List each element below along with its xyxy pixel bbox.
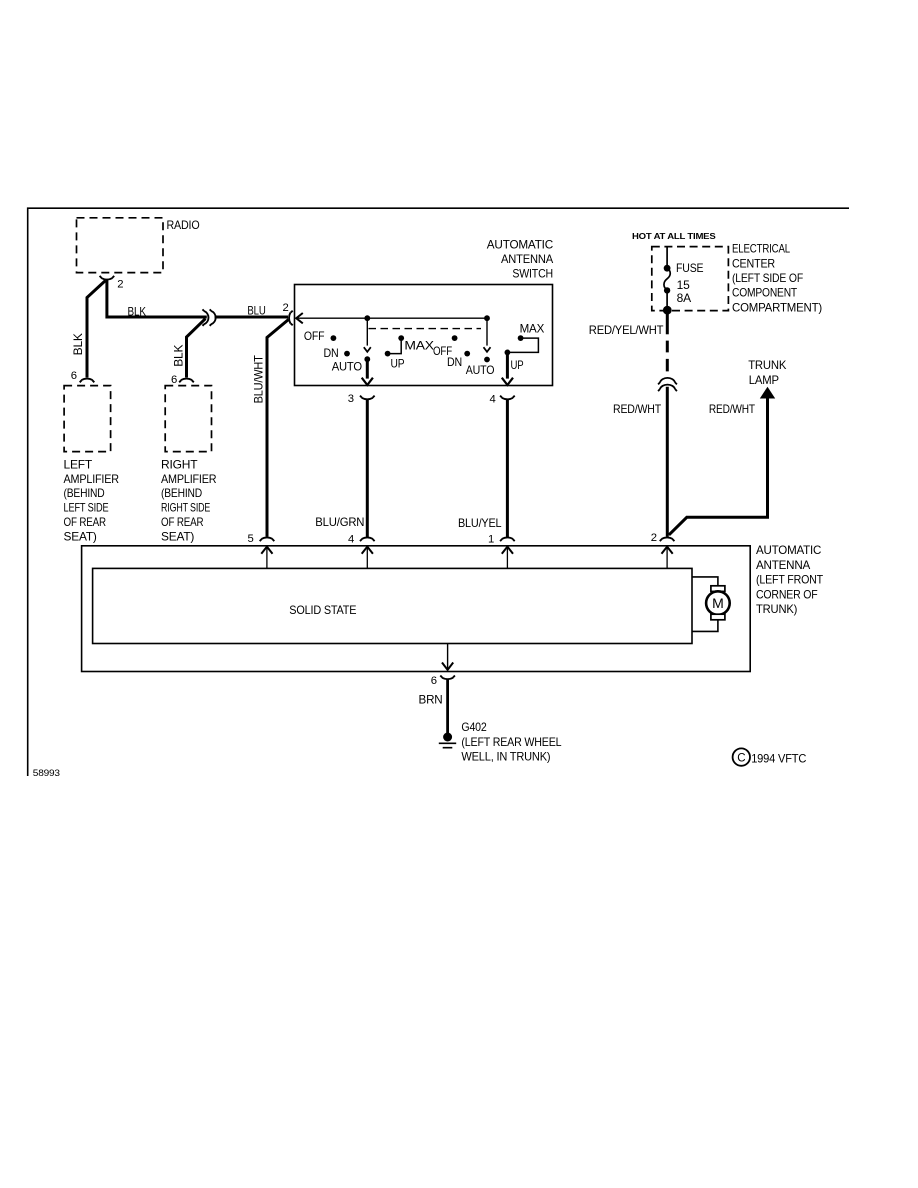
- pole 1 contact MAX: [398, 335, 434, 352]
- inline connector C100 (double arc): [658, 378, 677, 391]
- svg-text:TRUNK: TRUNK: [748, 358, 786, 372]
- svg-text:(BEHIND: (BEHIND: [64, 486, 105, 500]
- automatic antenna switch box S1: [295, 237, 554, 385]
- svg-text:AUTO: AUTO: [466, 363, 495, 377]
- svg-text:CORNER OF: CORNER OF: [756, 587, 818, 601]
- svg-text:AUTOMATIC: AUTOMATIC: [756, 543, 822, 557]
- label G402: [461, 720, 561, 764]
- diagram frame: [28, 208, 849, 776]
- trunk lamp label: [748, 358, 786, 387]
- ground G402: [439, 733, 456, 748]
- pole 2 contact AUTO: [466, 357, 495, 377]
- svg-text:SEAT): SEAT): [64, 529, 97, 543]
- switch pin 2 connector: [283, 302, 293, 325]
- radio pin 2 connector: [100, 276, 124, 291]
- pin 3 exit arrow: [362, 378, 373, 385]
- svg-text:COMPONENT: COMPONENT: [732, 286, 798, 300]
- pole 1 contact AUTO: [332, 356, 370, 373]
- svg-text:6: 6: [171, 374, 177, 386]
- pin 6 right amplifier: [171, 374, 194, 386]
- pin 2 entry arrow: [662, 547, 673, 569]
- svg-text:(LEFT SIDE OF: (LEFT SIDE OF: [732, 271, 803, 285]
- antenna pin 6 connector: [431, 675, 455, 687]
- pole 1 contact OFF: [304, 329, 336, 343]
- wire RED/YEL/WHT below fuse: [666, 310, 669, 334]
- switch pole 1 wiper: [364, 318, 371, 352]
- svg-text:WELL, IN TRUNK): WELL, IN TRUNK): [461, 750, 550, 764]
- svg-text:UP: UP: [391, 356, 405, 370]
- svg-text:LAMP: LAMP: [749, 373, 779, 387]
- svg-text:DN: DN: [324, 346, 339, 360]
- trunk lamp feed arrow: [760, 387, 775, 399]
- pole 2 contact MAX: [518, 321, 545, 341]
- wire pole1 AUTO contact to pin 3: [366, 359, 369, 378]
- wire BLK inline connector to right amplifier: [187, 319, 206, 378]
- wire pole2 UP contact to pin 4: [506, 352, 509, 378]
- svg-text:BLK: BLK: [171, 344, 185, 366]
- svg-text:RIGHT: RIGHT: [161, 457, 198, 471]
- wire BRN pin 6 to ground: [446, 679, 449, 733]
- fuse F1 15 8A: [664, 261, 704, 310]
- svg-text:AMPLIFIER: AMPLIFIER: [161, 472, 217, 486]
- antenna pin 4 connector: [348, 533, 375, 545]
- wire solid state to pin 6: [447, 644, 449, 669]
- switch pole 2 wiper: [484, 318, 491, 352]
- svg-text:TRUNK): TRUNK): [756, 602, 797, 616]
- svg-text:(LEFT REAR WHEEL: (LEFT REAR WHEEL: [461, 735, 561, 749]
- pole 1 UP-MAX link wire: [388, 338, 402, 354]
- automatic antenna assembly box: [82, 543, 824, 671]
- motor M1 wires: [692, 577, 718, 632]
- wire RED/WHT connector to antenna pin 2: [666, 387, 669, 537]
- svg-text:SEAT): SEAT): [161, 529, 194, 543]
- svg-text:RED/YEL/WHT: RED/YEL/WHT: [589, 323, 664, 337]
- svg-text:OF REAR: OF REAR: [161, 515, 204, 529]
- svg-text:ELECTRICAL: ELECTRICAL: [732, 242, 790, 256]
- wire RED/WHT trunk lamp to antenna pin 2: [669, 398, 768, 535]
- pole 2 contact UP: [505, 350, 524, 373]
- pin 5 entry arrow: [261, 547, 272, 569]
- svg-text:15: 15: [677, 278, 690, 292]
- svg-text:6: 6: [71, 370, 77, 382]
- pin 6 left amplifier: [71, 370, 95, 382]
- svg-text:LEFT: LEFT: [64, 457, 93, 471]
- svg-text:BLU/GRN: BLU/GRN: [315, 515, 364, 529]
- svg-text:ANTENNA: ANTENNA: [756, 558, 810, 572]
- svg-text:58993: 58993: [33, 768, 60, 779]
- switch pin 4 connector: [490, 394, 515, 406]
- svg-text:UP: UP: [511, 358, 524, 372]
- pole 2 MAX-UP link wire: [507, 338, 538, 352]
- antenna pin 2 connector: [651, 532, 675, 544]
- svg-text:RED/WHT: RED/WHT: [613, 402, 662, 416]
- svg-text:2: 2: [651, 532, 657, 544]
- wire BLU/YEL switch pin4 to antenna pin 1: [506, 399, 509, 537]
- svg-text:SOLID STATE: SOLID STATE: [289, 603, 356, 617]
- svg-text:BRN: BRN: [419, 692, 443, 706]
- node: bus junction 1: [364, 315, 370, 321]
- svg-text:BLK: BLK: [128, 305, 146, 319]
- svg-text:BLU/YEL: BLU/YEL: [458, 516, 502, 530]
- interrupted wire (dashed): [666, 341, 669, 372]
- svg-text:DN: DN: [447, 355, 462, 369]
- inline connector BLK/BLU: [203, 309, 216, 325]
- svg-text:HOT AT ALL TIMES: HOT AT ALL TIMES: [632, 231, 716, 241]
- radio U1: [77, 218, 200, 273]
- svg-text:AUTOMATIC: AUTOMATIC: [487, 237, 554, 251]
- svg-text:BLK: BLK: [71, 333, 85, 355]
- svg-text:RIGHT SIDE: RIGHT SIDE: [161, 501, 210, 515]
- node: bus junction 2: [484, 315, 490, 321]
- svg-text:2: 2: [117, 279, 123, 291]
- svg-text:BLU/WHT: BLU/WHT: [251, 355, 265, 404]
- wire BLU/GRN switch pin3 to antenna pin 4: [366, 399, 369, 537]
- wire BLU/WHT switch pin2 to antenna pin 5: [267, 320, 289, 537]
- svg-text:BLU: BLU: [247, 304, 265, 318]
- svg-text:6: 6: [431, 675, 437, 687]
- svg-text:3: 3: [348, 393, 354, 405]
- pin 1 entry arrow: [502, 547, 513, 569]
- pole 1 contact UP: [385, 351, 405, 371]
- svg-text:RED/WHT: RED/WHT: [709, 402, 756, 416]
- solid state module box: [93, 568, 692, 643]
- svg-text:4: 4: [490, 394, 496, 406]
- svg-text:MAX: MAX: [404, 338, 434, 352]
- svg-text:(LEFT FRONT: (LEFT FRONT: [756, 573, 824, 587]
- svg-text:2: 2: [283, 302, 289, 314]
- svg-text:M: M: [712, 595, 723, 611]
- svg-text:OF REAR: OF REAR: [64, 515, 107, 529]
- svg-text:8A: 8A: [677, 291, 691, 305]
- svg-text:OFF: OFF: [304, 329, 325, 343]
- svg-text:ANTENNA: ANTENNA: [501, 252, 553, 266]
- wire BLU inline connector to switch pin 2: [215, 316, 288, 319]
- motor M1: [706, 586, 730, 620]
- svg-text:C: C: [737, 752, 745, 764]
- svg-text:4: 4: [348, 533, 354, 545]
- svg-text:MAX: MAX: [520, 321, 545, 335]
- wire hot feed into fuse: [666, 247, 668, 265]
- svg-text:COMPARTMENT): COMPARTMENT): [732, 300, 822, 314]
- svg-text:RADIO: RADIO: [167, 218, 200, 232]
- node: fuse output: [663, 306, 672, 315]
- svg-text:CENTER: CENTER: [732, 256, 775, 270]
- antenna pin 1 connector: [488, 534, 515, 546]
- pole 2 contact OFF: [433, 335, 458, 358]
- copyright 1994 VFTC: [733, 748, 807, 765]
- pin 4 exit arrow: [502, 378, 513, 385]
- pole 2 contact DN: [447, 351, 470, 369]
- svg-text:1994 VFTC: 1994 VFTC: [751, 752, 806, 766]
- right amplifier box: [161, 386, 217, 544]
- switch input arrow at pin 2: [296, 313, 303, 323]
- electrical center box: [652, 242, 822, 315]
- wire BLK radio pin2 to inline connector: [107, 280, 207, 318]
- left amplifier box: [64, 386, 120, 544]
- svg-text:G402: G402: [461, 720, 487, 734]
- pin 4 entry arrow: [362, 547, 373, 569]
- wire BLK radio pin2 to left amplifier: [87, 281, 106, 378]
- svg-text:LEFT SIDE: LEFT SIDE: [64, 501, 109, 515]
- switch internal bus wire: [296, 317, 487, 319]
- svg-text:FUSE: FUSE: [676, 261, 704, 275]
- svg-text:5: 5: [248, 533, 254, 545]
- svg-text:(BEHIND: (BEHIND: [161, 486, 202, 500]
- antenna pin 5 connector: [248, 533, 275, 545]
- pin 6 exit arrow: [442, 663, 453, 670]
- switch pin 3 connector: [348, 393, 375, 405]
- pole 1 contact DN: [324, 346, 350, 360]
- svg-text:1: 1: [488, 534, 494, 546]
- svg-text:AUTO: AUTO: [332, 360, 362, 374]
- mechanical link (dashed): [369, 328, 482, 330]
- svg-text:SWITCH: SWITCH: [512, 267, 553, 281]
- svg-text:AMPLIFIER: AMPLIFIER: [64, 472, 120, 486]
